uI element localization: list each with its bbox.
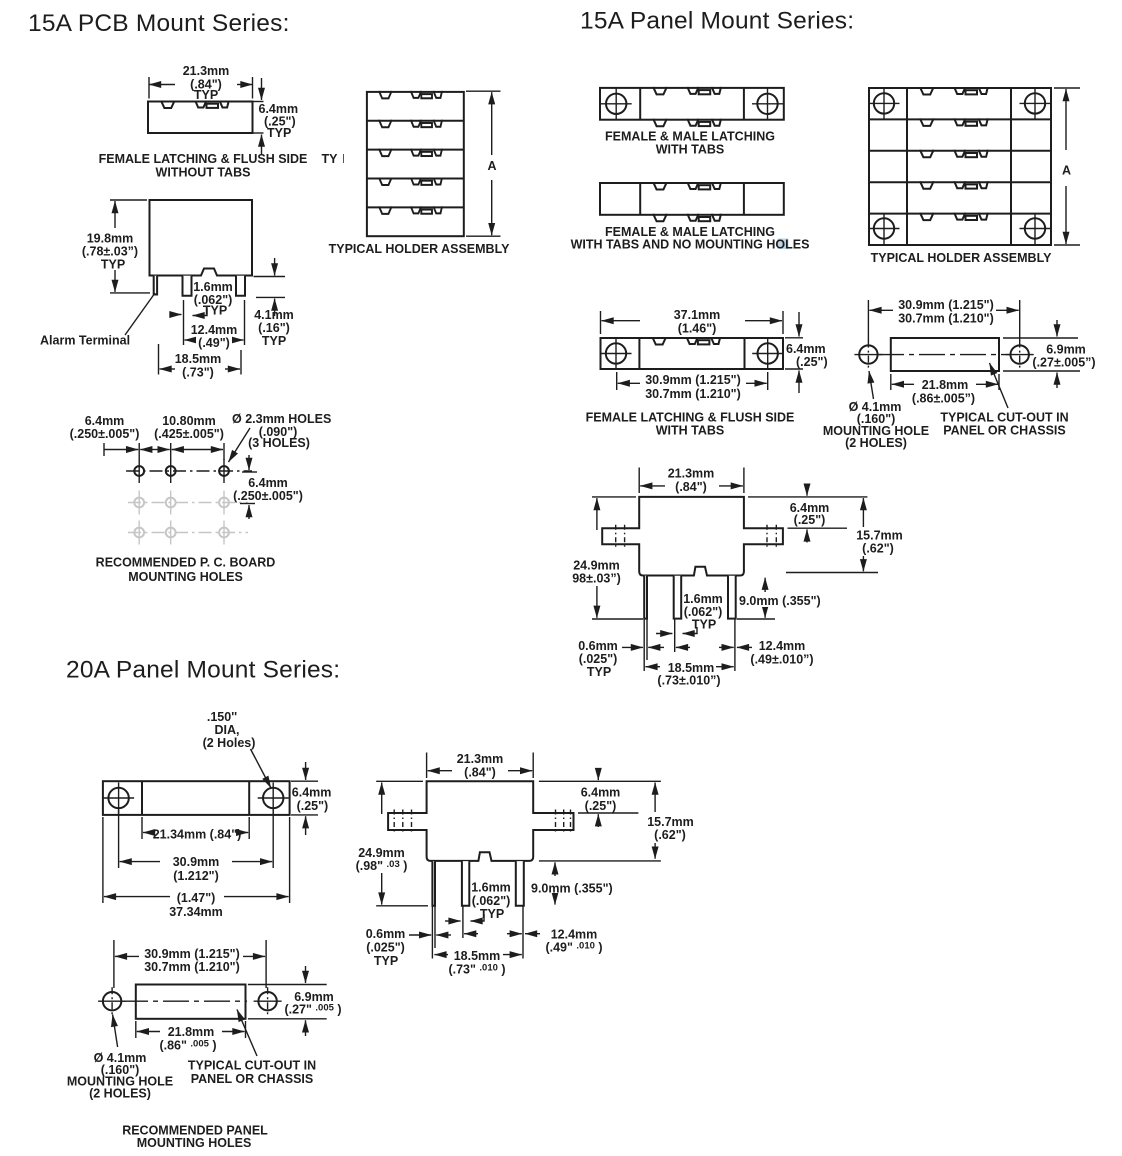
mounting hole left bbox=[854, 341, 882, 369]
svg-text:30.9mm (1.215"): 30.9mm (1.215") bbox=[898, 298, 994, 312]
dimension 18.5mm (.73±.010") bbox=[645, 666, 660, 668]
dimension 24.9mm height bbox=[596, 498, 598, 530]
svg-text:(.25"): (.25") bbox=[794, 513, 826, 527]
svg-text:A: A bbox=[1062, 164, 1071, 178]
svg-text:WITHOUT TABS: WITHOUT TABS bbox=[156, 166, 251, 180]
svg-text:21.34mm (.84"): 21.34mm (.84") bbox=[153, 828, 242, 842]
svg-text:(.250±.005"): (.250±.005") bbox=[70, 427, 140, 441]
svg-text:FEMALE & MALE LATCHING: FEMALE & MALE LATCHING bbox=[605, 130, 775, 144]
svg-text:(.425±.005"): (.425±.005") bbox=[154, 427, 224, 441]
dimension 4.1mm (.16") TYP pin length bbox=[254, 276, 286, 278]
dimension 6.4mm (.25") bbox=[597, 771, 599, 780]
svg-text:(.250±.005"): (.250±.005") bbox=[233, 489, 303, 503]
dimension 21.3mm (.84") TYP width bbox=[148, 77, 150, 99]
end block separator lines bbox=[638, 338, 640, 369]
dimension 6.4mm / 10.80mm hole spacing bbox=[103, 443, 105, 456]
dimension 19.8mm (.78±.03") TYP height bbox=[110, 199, 147, 201]
svg-text:15.7mm: 15.7mm bbox=[647, 815, 694, 829]
latch tabs top edge bbox=[654, 182, 721, 190]
svg-text:24.9mm: 24.9mm bbox=[573, 559, 620, 573]
part body: female & male latching, tabs, no mounting holes bbox=[600, 183, 784, 215]
cut-out centerline bbox=[122, 1000, 247, 1002]
label TYPICAL CUT-OUT IN PANEL OR CHASSIS with leader bbox=[237, 1010, 257, 1057]
dimension 30.9mm / 30.7mm hole spacing bbox=[867, 300, 869, 341]
svg-text:(.62"): (.62") bbox=[654, 828, 686, 842]
svg-text:MOUNTING HOLES: MOUNTING HOLES bbox=[128, 570, 243, 584]
part body: female latching & flush side with tabs bbox=[601, 338, 784, 369]
dimension 9.0mm (.355") pin length bbox=[554, 862, 556, 876]
svg-text:(.025"): (.025") bbox=[579, 652, 618, 666]
svg-text:TYP: TYP bbox=[101, 258, 125, 272]
dimension 30.9mm / 30.7mm hole spacing bbox=[113, 940, 115, 988]
holder unit separator lines bbox=[869, 118, 1051, 120]
alarm terminal pin (thin) bbox=[644, 576, 647, 619]
row 2 centerline (gray) bbox=[128, 502, 248, 504]
svg-text:(.25"): (.25") bbox=[297, 799, 329, 813]
dimension 6.4mm (.25") height bbox=[305, 762, 307, 780]
svg-text:TYPICAL CUT-OUT IN: TYPICAL CUT-OUT IN bbox=[188, 1059, 316, 1073]
mounting hole left bbox=[601, 338, 632, 369]
svg-text:PANEL OR CHASSIS: PANEL OR CHASSIS bbox=[943, 424, 1065, 438]
svg-text:6.4mm: 6.4mm bbox=[85, 414, 125, 428]
svg-text:(.73" .010 ): (.73" .010 ) bbox=[448, 963, 505, 977]
svg-text:4.1mm: 4.1mm bbox=[254, 308, 294, 322]
reference line bottom left bbox=[376, 905, 428, 907]
svg-text:21.8mm: 21.8mm bbox=[168, 1025, 215, 1039]
reference line top left bbox=[592, 496, 636, 498]
svg-text:(.27" .005 ): (.27" .005 ) bbox=[284, 1003, 341, 1017]
mounting hole right bbox=[752, 88, 783, 119]
svg-text:30.7mm (1.210"): 30.7mm (1.210") bbox=[645, 387, 741, 401]
svg-text:37.1mm: 37.1mm bbox=[674, 308, 721, 322]
right pin bbox=[728, 576, 736, 619]
tab mounting hole hidden lines (left) bbox=[393, 810, 395, 834]
svg-text:(.86" .005 ): (.86" .005 ) bbox=[159, 1039, 216, 1053]
dimension 21.8mm cut-out width bbox=[135, 1021, 137, 1038]
part body: female latching flush side without tabs bbox=[148, 102, 253, 134]
svg-text:(1.47"): (1.47") bbox=[177, 891, 216, 905]
svg-text:TYPICAL HOLDER ASSEMBLY: TYPICAL HOLDER ASSEMBLY bbox=[871, 251, 1052, 265]
tab mounting hole hidden lines (right) bbox=[555, 810, 557, 834]
svg-text:TYP: TYP bbox=[587, 665, 611, 679]
panel cut-out drawing (top right) bbox=[891, 338, 999, 371]
dimension 6.4mm (.25") TYP height bbox=[261, 78, 263, 100]
svg-text:6.4mm: 6.4mm bbox=[292, 786, 332, 800]
reference line bottom right bbox=[737, 618, 775, 620]
svg-text:(1.46"): (1.46") bbox=[678, 322, 717, 336]
extension lines below pins bbox=[643, 619, 645, 671]
svg-text:(.98" .03 ): (.98" .03 ) bbox=[356, 859, 408, 873]
dimension 6.4mm row spacing bbox=[242, 471, 257, 473]
svg-text:(.62"): (.62") bbox=[862, 542, 894, 556]
svg-text:(.16"): (.16") bbox=[258, 321, 290, 335]
svg-text:(2 HOLES): (2 HOLES) bbox=[89, 1087, 151, 1101]
svg-text:6.4mm: 6.4mm bbox=[786, 342, 826, 356]
svg-text:FEMALE LATCHING & FLUSH SIDE: FEMALE LATCHING & FLUSH SIDE bbox=[99, 152, 308, 166]
svg-text:(2 HOLES): (2 HOLES) bbox=[845, 436, 907, 450]
dimension A stack height bbox=[1054, 87, 1080, 89]
right pin bbox=[516, 861, 524, 906]
svg-text:(.78±.03”): (.78±.03”) bbox=[82, 245, 138, 259]
svg-text:WITH TABS: WITH TABS bbox=[656, 143, 725, 157]
mounting hole right bbox=[254, 987, 282, 1015]
row 1 holes (dark) bbox=[134, 459, 144, 483]
svg-text:10.80mm: 10.80mm bbox=[162, 414, 216, 428]
svg-text:(.86±.005”): (.86±.005”) bbox=[912, 392, 975, 406]
svg-text:(.73"): (.73") bbox=[182, 366, 214, 380]
svg-text:15A Panel Mount Series:: 15A Panel Mount Series: bbox=[580, 8, 854, 35]
dimension (1.47") 37.34mm overall bbox=[102, 817, 104, 903]
svg-text:(.49±.010”): (.49±.010”) bbox=[750, 653, 813, 667]
dimension 21.8mm (.86±.005") cut-out width bbox=[890, 374, 892, 390]
svg-text:98±.03”): 98±.03”) bbox=[572, 572, 621, 586]
row 2 holes (gray) bbox=[134, 491, 144, 515]
latch tabs top edge bbox=[653, 337, 720, 345]
svg-text:TYP: TYP bbox=[692, 618, 716, 632]
part body: 20A side view with side mounting tabs bbox=[388, 781, 573, 861]
holder unit separator lines bbox=[367, 120, 464, 122]
svg-text:30.7mm (1.210"): 30.7mm (1.210") bbox=[898, 312, 994, 326]
svg-text:9.0mm (.355"): 9.0mm (.355") bbox=[531, 882, 613, 896]
svg-text:(.49" .010 ): (.49" .010 ) bbox=[545, 941, 602, 955]
tab mounting hole hidden lines (right) bbox=[766, 525, 768, 548]
latch tabs bottom edge (protruding) bbox=[654, 119, 721, 127]
label Alarm Terminal with leader bbox=[125, 293, 155, 335]
svg-text:21.3mm: 21.3mm bbox=[668, 467, 715, 481]
svg-text:24.9mm: 24.9mm bbox=[358, 846, 405, 860]
middle pin bbox=[462, 861, 469, 906]
svg-text:FEMALE LATCHING & FLUSH SIDE: FEMALE LATCHING & FLUSH SIDE bbox=[586, 411, 795, 425]
end block separator lines bbox=[141, 781, 143, 815]
mounting hole left bbox=[103, 783, 134, 814]
svg-text:1.6mm: 1.6mm bbox=[683, 592, 723, 606]
end block separator lines bbox=[639, 183, 641, 215]
reference line top right bbox=[539, 780, 661, 782]
svg-text:(2 Holes): (2 Holes) bbox=[203, 736, 256, 750]
svg-text:15A PCB Mount Series:: 15A PCB Mount Series: bbox=[28, 10, 290, 37]
svg-text:19.8mm: 19.8mm bbox=[87, 232, 134, 246]
svg-text:(.84"): (.84") bbox=[464, 766, 496, 780]
svg-text:WITH TABS AND NO MOUNTING HOLE: WITH TABS AND NO MOUNTING HOLES bbox=[571, 238, 810, 252]
pcb part side view body bbox=[150, 200, 253, 276]
svg-text:TYP: TYP bbox=[374, 954, 398, 968]
svg-text:6.4mm: 6.4mm bbox=[581, 786, 621, 800]
mounting hole left bbox=[98, 987, 126, 1015]
svg-text:30.9mm (1.215"): 30.9mm (1.215") bbox=[645, 373, 741, 387]
svg-text:18.5mm: 18.5mm bbox=[454, 949, 501, 963]
svg-text:(.25"): (.25") bbox=[796, 355, 828, 369]
svg-text:0.6mm: 0.6mm bbox=[366, 927, 406, 941]
svg-text:0.6mm: 0.6mm bbox=[578, 639, 618, 653]
middle pin bbox=[183, 276, 192, 296]
svg-text:(.025"): (.025") bbox=[366, 941, 405, 955]
dimension 15.7mm (.62") bbox=[654, 783, 656, 813]
typical holder assembly stack (left) bbox=[367, 92, 464, 236]
latch tabs on each holder unit bbox=[379, 91, 441, 99]
right pin bbox=[236, 276, 245, 296]
dimension 12.4mm (.49±.010") bbox=[676, 646, 690, 648]
alarm terminal pin (thin) bbox=[154, 276, 157, 295]
extension lines below pins bbox=[431, 906, 433, 959]
label TYPICAL CUT-OUT IN PANEL OR CHASSIS with leader bbox=[990, 363, 1009, 408]
tab mounting hole hidden lines (left) bbox=[615, 525, 617, 548]
mounting hole left bbox=[601, 88, 632, 119]
dimension 21.34mm (.84") bbox=[141, 817, 143, 839]
svg-text:DIA,: DIA, bbox=[215, 723, 240, 737]
svg-text:(1.212"): (1.212") bbox=[173, 869, 219, 883]
svg-text:Ø 2.3mm HOLES: Ø 2.3mm HOLES bbox=[232, 412, 331, 426]
dimension 9.0mm (.355") pin length bbox=[764, 578, 766, 592]
leader line to right hole bbox=[251, 749, 272, 788]
panel cut-out drawing (bottom) bbox=[136, 985, 246, 1019]
dimension A stack height bbox=[466, 90, 501, 92]
svg-text:Alarm Terminal: Alarm Terminal bbox=[40, 334, 130, 348]
part body: female & male latching with tabs bbox=[600, 88, 784, 120]
svg-text:MOUNTING HOLES: MOUNTING HOLES bbox=[137, 1136, 252, 1150]
label Ø 4.1mm mounting hole with leader bbox=[113, 1015, 118, 1048]
mounting hole right bbox=[258, 783, 289, 814]
reference line mid right bbox=[539, 860, 661, 862]
svg-text:(.73±.010”): (.73±.010”) bbox=[657, 674, 720, 688]
svg-text:(.49"): (.49") bbox=[198, 336, 230, 350]
latch tabs on part top edge bbox=[161, 101, 228, 109]
reference line top left bbox=[376, 780, 423, 782]
svg-text:PANEL OR CHASSIS: PANEL OR CHASSIS bbox=[191, 1072, 313, 1086]
svg-text:18.5mm: 18.5mm bbox=[175, 352, 222, 366]
dimension 21.3mm (.84") bbox=[638, 468, 640, 494]
svg-text:9.0mm (.355"): 9.0mm (.355") bbox=[739, 594, 821, 608]
row 3 centerline (gray) bbox=[128, 532, 248, 534]
dimension 21.3mm (.84") bbox=[426, 753, 428, 779]
svg-text:WITH TABS: WITH TABS bbox=[656, 424, 725, 438]
dimension 12.4mm (.49" .010) bbox=[464, 933, 478, 935]
svg-text:(3 HOLES): (3 HOLES) bbox=[248, 436, 310, 450]
svg-text:6.4mm: 6.4mm bbox=[248, 476, 288, 490]
svg-text:RECOMMENDED P. C. BOARD: RECOMMENDED P. C. BOARD bbox=[96, 556, 276, 570]
corner mounting holes bbox=[869, 88, 900, 119]
svg-text:(.25"): (.25") bbox=[585, 799, 617, 813]
cut-out centerline bbox=[878, 354, 1012, 356]
svg-text:.150'': .150'' bbox=[207, 710, 237, 724]
mounting hole right bbox=[1006, 341, 1034, 369]
dimension 18.5mm (.73") pin span bbox=[158, 344, 160, 375]
dimension 6.9mm (.27±.005") slot height bbox=[1003, 337, 1078, 339]
label Ø 4.1mm mounting hole with leader bbox=[869, 371, 874, 399]
dimension 24.9mm height bbox=[381, 783, 383, 815]
svg-text:15.7mm: 15.7mm bbox=[856, 529, 903, 543]
svg-text:TYPICAL HOLDER ASSEMBLY: TYPICAL HOLDER ASSEMBLY bbox=[329, 242, 510, 256]
svg-text:21.8mm: 21.8mm bbox=[922, 378, 969, 392]
dimension 6.4mm (.25") height bbox=[798, 312, 800, 337]
latch tabs top edge bbox=[654, 87, 721, 95]
svg-text:(.84"): (.84") bbox=[675, 480, 707, 494]
vertical separator lines bbox=[906, 88, 908, 245]
svg-text:TY: TY bbox=[322, 152, 339, 166]
svg-text:A: A bbox=[487, 159, 496, 173]
dimension 6.9mm slot height bbox=[248, 984, 327, 986]
svg-text:(.27±.005”): (.27±.005”) bbox=[1032, 356, 1095, 370]
svg-text:6.9mm: 6.9mm bbox=[1046, 343, 1086, 357]
dimension 12.4mm (.49") pin spacing bbox=[183, 300, 185, 345]
svg-text:(.062"): (.062") bbox=[472, 894, 511, 908]
dimension 30.9mm / 30.7mm hole spacing bbox=[616, 372, 618, 390]
svg-text:TYP: TYP bbox=[267, 126, 291, 140]
dimension 37.1mm (1.46") overall width bbox=[600, 311, 602, 334]
dimension 18.5mm (.73" .010) bbox=[434, 954, 448, 956]
dimension 6.4mm (.25") bbox=[806, 487, 808, 496]
dimension 30.9mm (1.212") hole spacing bbox=[118, 810, 120, 868]
svg-text:1.6mm: 1.6mm bbox=[193, 280, 233, 294]
mounting hole right bbox=[752, 338, 783, 369]
svg-text:21.3mm: 21.3mm bbox=[183, 64, 230, 78]
svg-text:20A Panel Mount Series:: 20A Panel Mount Series: bbox=[66, 657, 340, 684]
end block separator lines bbox=[639, 88, 641, 120]
latch tabs on each holder unit bbox=[920, 87, 987, 95]
part body: 20A panel mount front view bbox=[103, 781, 290, 815]
alarm terminal pin (thin) bbox=[432, 861, 435, 906]
dimension 15.7mm (.62") bbox=[862, 498, 864, 527]
reference line mid right bbox=[786, 572, 878, 574]
svg-text:37.34mm: 37.34mm bbox=[169, 905, 223, 919]
svg-text:30.7mm (1.210"): 30.7mm (1.210") bbox=[144, 960, 240, 974]
svg-text:TYP: TYP bbox=[194, 88, 218, 102]
svg-text:30.9mm (1.215"): 30.9mm (1.215") bbox=[144, 947, 240, 961]
svg-text:12.4mm: 12.4mm bbox=[191, 323, 238, 337]
svg-text:12.4mm: 12.4mm bbox=[551, 928, 598, 942]
svg-text:1.6mm: 1.6mm bbox=[471, 881, 511, 895]
reference line bottom left bbox=[592, 618, 643, 620]
typical holder assembly stack (right) bbox=[869, 88, 1051, 245]
svg-text:30.9mm: 30.9mm bbox=[173, 855, 220, 869]
svg-text:12.4mm: 12.4mm bbox=[759, 639, 806, 653]
svg-text:21.3mm: 21.3mm bbox=[457, 752, 504, 766]
latch tabs bottom edge (protruding) bbox=[654, 214, 721, 222]
row 3 holes (gray) bbox=[134, 521, 144, 545]
svg-text:TYP: TYP bbox=[262, 334, 286, 348]
svg-text:TYPICAL CUT-OUT IN: TYPICAL CUT-OUT IN bbox=[940, 411, 1068, 425]
row 1 centerline bbox=[126, 470, 252, 472]
part body side view with side mounting tabs bbox=[602, 497, 783, 576]
reference line top right bbox=[748, 496, 867, 498]
middle pin bbox=[674, 576, 682, 619]
